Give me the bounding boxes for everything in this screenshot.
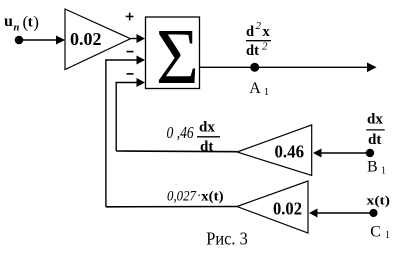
- wire input to amplifier: [19, 39, 56, 41]
- wire vertical B: [115, 82, 117, 151]
- svg-text:dt: dt: [200, 139, 213, 155]
- svg-text:): ): [33, 13, 39, 32]
- wire vertical A: [105, 59, 107, 207]
- label u_я(t): [4, 13, 39, 34]
- svg-text:t: t: [28, 15, 33, 31]
- svg-text:dt: dt: [368, 132, 381, 148]
- svg-text:B: B: [367, 159, 378, 176]
- svg-text:dt: dt: [246, 43, 259, 59]
- svg-text:0,027: 0,027: [167, 188, 197, 204]
- node A1: [250, 63, 259, 72]
- svg-text:dx: dx: [199, 119, 215, 135]
- svg-text:0.46: 0.46: [275, 142, 305, 162]
- svg-text:n: n: [14, 23, 20, 34]
- node B1: [366, 149, 374, 157]
- svg-text:1: 1: [264, 87, 269, 98]
- wire C1 to amplifier: [317, 212, 374, 214]
- wire amplifier to summator: [131, 38, 138, 40]
- svg-text:x(t): x(t): [367, 193, 391, 207]
- svg-text:Σ: Σ: [156, 12, 199, 100]
- label dx/dt at B1: [366, 111, 384, 148]
- op-amp 0.46: [237, 125, 312, 175]
- wire summator output: [200, 66, 369, 68]
- svg-text:1: 1: [381, 166, 386, 177]
- wire feedback row2: [116, 150, 237, 153]
- svg-text:u: u: [4, 13, 13, 30]
- summator U1: [146, 12, 200, 100]
- label d2x/dt2: [246, 20, 271, 59]
- node input dot: [15, 36, 24, 45]
- node C1: [369, 209, 377, 217]
- svg-text:2: 2: [256, 20, 262, 32]
- svg-text:C: C: [370, 224, 381, 241]
- svg-text:0.02: 0.02: [70, 29, 102, 49]
- svg-text:x(t): x(t): [201, 188, 224, 203]
- plus sign: [126, 16, 134, 18]
- label 0,46 dx/dt: [167, 119, 221, 155]
- minus sign 1: [127, 51, 134, 53]
- wire B1 to amplifier: [321, 152, 370, 154]
- wire feedback A to summator: [106, 59, 138, 61]
- op-amp 0.02 bottom: [237, 181, 308, 233]
- svg-text:Рис. 3: Рис. 3: [206, 229, 248, 249]
- svg-text:2: 2: [262, 41, 268, 53]
- minus sign 2: [127, 73, 134, 75]
- wire feedback row3: [106, 206, 237, 208]
- svg-text:dx: dx: [367, 111, 383, 127]
- op-amp 0.02: [65, 9, 131, 70]
- svg-text:d: d: [246, 24, 254, 40]
- svg-text:A: A: [249, 80, 261, 97]
- label 0,027 x(t): [167, 188, 224, 205]
- svg-text:0 ,46: 0 ,46: [167, 123, 195, 142]
- svg-text:0.02: 0.02: [273, 198, 302, 218]
- svg-text:1: 1: [385, 230, 390, 241]
- svg-text:x: x: [263, 24, 271, 40]
- wire feedback B to summator: [116, 82, 137, 84]
